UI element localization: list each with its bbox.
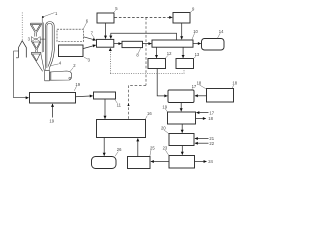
wire feeder to box 19 xyxy=(14,59,29,98)
wire G to D xyxy=(181,23,183,39)
hopper 1 xyxy=(31,23,42,25)
svg-text:6: 6 xyxy=(86,18,89,23)
wire A to G (dashed) xyxy=(115,16,173,18)
svg-text:12: 12 xyxy=(167,51,172,56)
wire 11 to 16 xyxy=(104,99,106,119)
hopper feeder vessel (pentagon) xyxy=(19,41,27,58)
wire 12 to T xyxy=(157,69,167,96)
svg-text:23: 23 xyxy=(163,146,168,151)
box S xyxy=(207,89,234,103)
svg-text:26: 26 xyxy=(117,147,122,152)
exhauster inlet flange xyxy=(45,70,50,81)
box 8 xyxy=(122,41,143,47)
svg-text:7: 7 xyxy=(91,30,94,35)
box 19 lower left xyxy=(30,93,76,104)
svg-text:20: 20 xyxy=(161,125,166,130)
svg-text:16: 16 xyxy=(147,111,152,116)
wire N to 20 xyxy=(181,124,183,133)
bus arrowhead up xyxy=(127,103,129,106)
svg-text:17: 17 xyxy=(192,84,197,89)
label 2 leader xyxy=(70,68,73,72)
outlet pipe xyxy=(14,51,19,59)
wire S to T xyxy=(195,95,207,97)
svg-text:19: 19 xyxy=(162,104,167,109)
loop tube (inverted U) xyxy=(46,22,55,68)
label 4 leader xyxy=(51,64,59,66)
wire 20 to 23 xyxy=(181,146,183,155)
output 18 from N xyxy=(196,118,206,120)
node 1 dot xyxy=(42,16,44,18)
svg-text:19: 19 xyxy=(75,82,80,87)
funnel 2 outlet pipe xyxy=(36,50,38,53)
wire Q to 16 xyxy=(137,138,139,156)
node feed line (dotted) xyxy=(21,13,23,41)
box 23 xyxy=(169,156,195,169)
dashed control bus vertical xyxy=(145,17,147,85)
box 20 xyxy=(169,134,194,146)
svg-text:1: 1 xyxy=(55,11,58,16)
box 13 xyxy=(176,59,194,69)
wire 7 to 8 xyxy=(114,43,122,45)
input 22 into 20 xyxy=(195,142,209,144)
svg-text:18: 18 xyxy=(208,116,213,121)
box 14 (rounded) xyxy=(202,39,225,51)
box 9 xyxy=(173,13,190,24)
label 1 xyxy=(44,13,55,17)
box 16 xyxy=(97,120,146,138)
svg-text:14: 14 xyxy=(219,29,224,34)
svg-text:18: 18 xyxy=(232,81,237,86)
wire 10 to 14 xyxy=(193,43,201,45)
wire A to B xyxy=(105,23,107,39)
box 10 xyxy=(152,40,193,47)
box T (rounded) xyxy=(168,90,194,103)
svg-text:11: 11 xyxy=(117,103,122,108)
svg-text:13: 13 xyxy=(195,52,200,57)
box 11 xyxy=(94,92,116,99)
wire 19 to 11 xyxy=(76,95,93,98)
valve 3 (bowtie) xyxy=(31,37,40,42)
svg-text:4: 4 xyxy=(59,61,62,66)
wire D feedback to B xyxy=(111,33,177,40)
svg-text:18: 18 xyxy=(197,81,202,86)
svg-text:2: 2 xyxy=(73,63,76,68)
svg-text:5: 5 xyxy=(115,6,118,11)
cone hopper xyxy=(31,54,44,71)
wire T to N xyxy=(180,103,182,112)
wire J to 7 xyxy=(83,45,96,49)
input 17 into N xyxy=(196,112,208,114)
dashed control bus to 16 xyxy=(129,85,147,119)
valve outlet line to tube xyxy=(40,38,45,40)
svg-text:3: 3 xyxy=(88,57,91,62)
input 21 into 20 xyxy=(195,138,209,140)
wire 16 to R xyxy=(103,138,105,156)
box 6 (dashed) xyxy=(57,29,84,41)
dotted feedback riser to 7 xyxy=(109,48,111,74)
box Q (25) xyxy=(128,157,151,169)
wire 10 to 13 xyxy=(182,47,184,58)
exhauster 2 (cylinder) xyxy=(50,71,72,80)
wire 8 to 10 xyxy=(143,43,152,45)
wire 6 to 7 xyxy=(84,37,96,40)
svg-text:19: 19 xyxy=(49,119,54,124)
svg-text:9: 9 xyxy=(192,6,195,11)
dotted feedback line xyxy=(110,69,184,74)
svg-text:3: 3 xyxy=(28,36,31,41)
riser pipe beside hopper xyxy=(42,18,43,53)
box N (19) xyxy=(168,112,196,124)
svg-text:17: 17 xyxy=(209,110,214,115)
cone hopper top band xyxy=(31,52,41,54)
box R (26, rounded) xyxy=(92,157,117,169)
funnel 2 xyxy=(32,42,41,50)
box 5 xyxy=(97,13,114,23)
svg-text:22: 22 xyxy=(209,141,214,146)
box 12 xyxy=(148,59,166,69)
svg-text:24: 24 xyxy=(208,159,213,164)
hopper outlet pipe xyxy=(35,33,37,37)
svg-text:10: 10 xyxy=(193,29,198,34)
wire 23 to Q xyxy=(151,161,169,163)
svg-text:8: 8 xyxy=(136,53,139,58)
wire 10 to 12 xyxy=(156,47,158,58)
box J (mill) xyxy=(59,45,84,57)
box 7 xyxy=(97,39,114,47)
svg-text:25: 25 xyxy=(150,146,155,151)
output 24 from 23 xyxy=(195,161,207,163)
input arrow under box 19 xyxy=(52,104,54,118)
